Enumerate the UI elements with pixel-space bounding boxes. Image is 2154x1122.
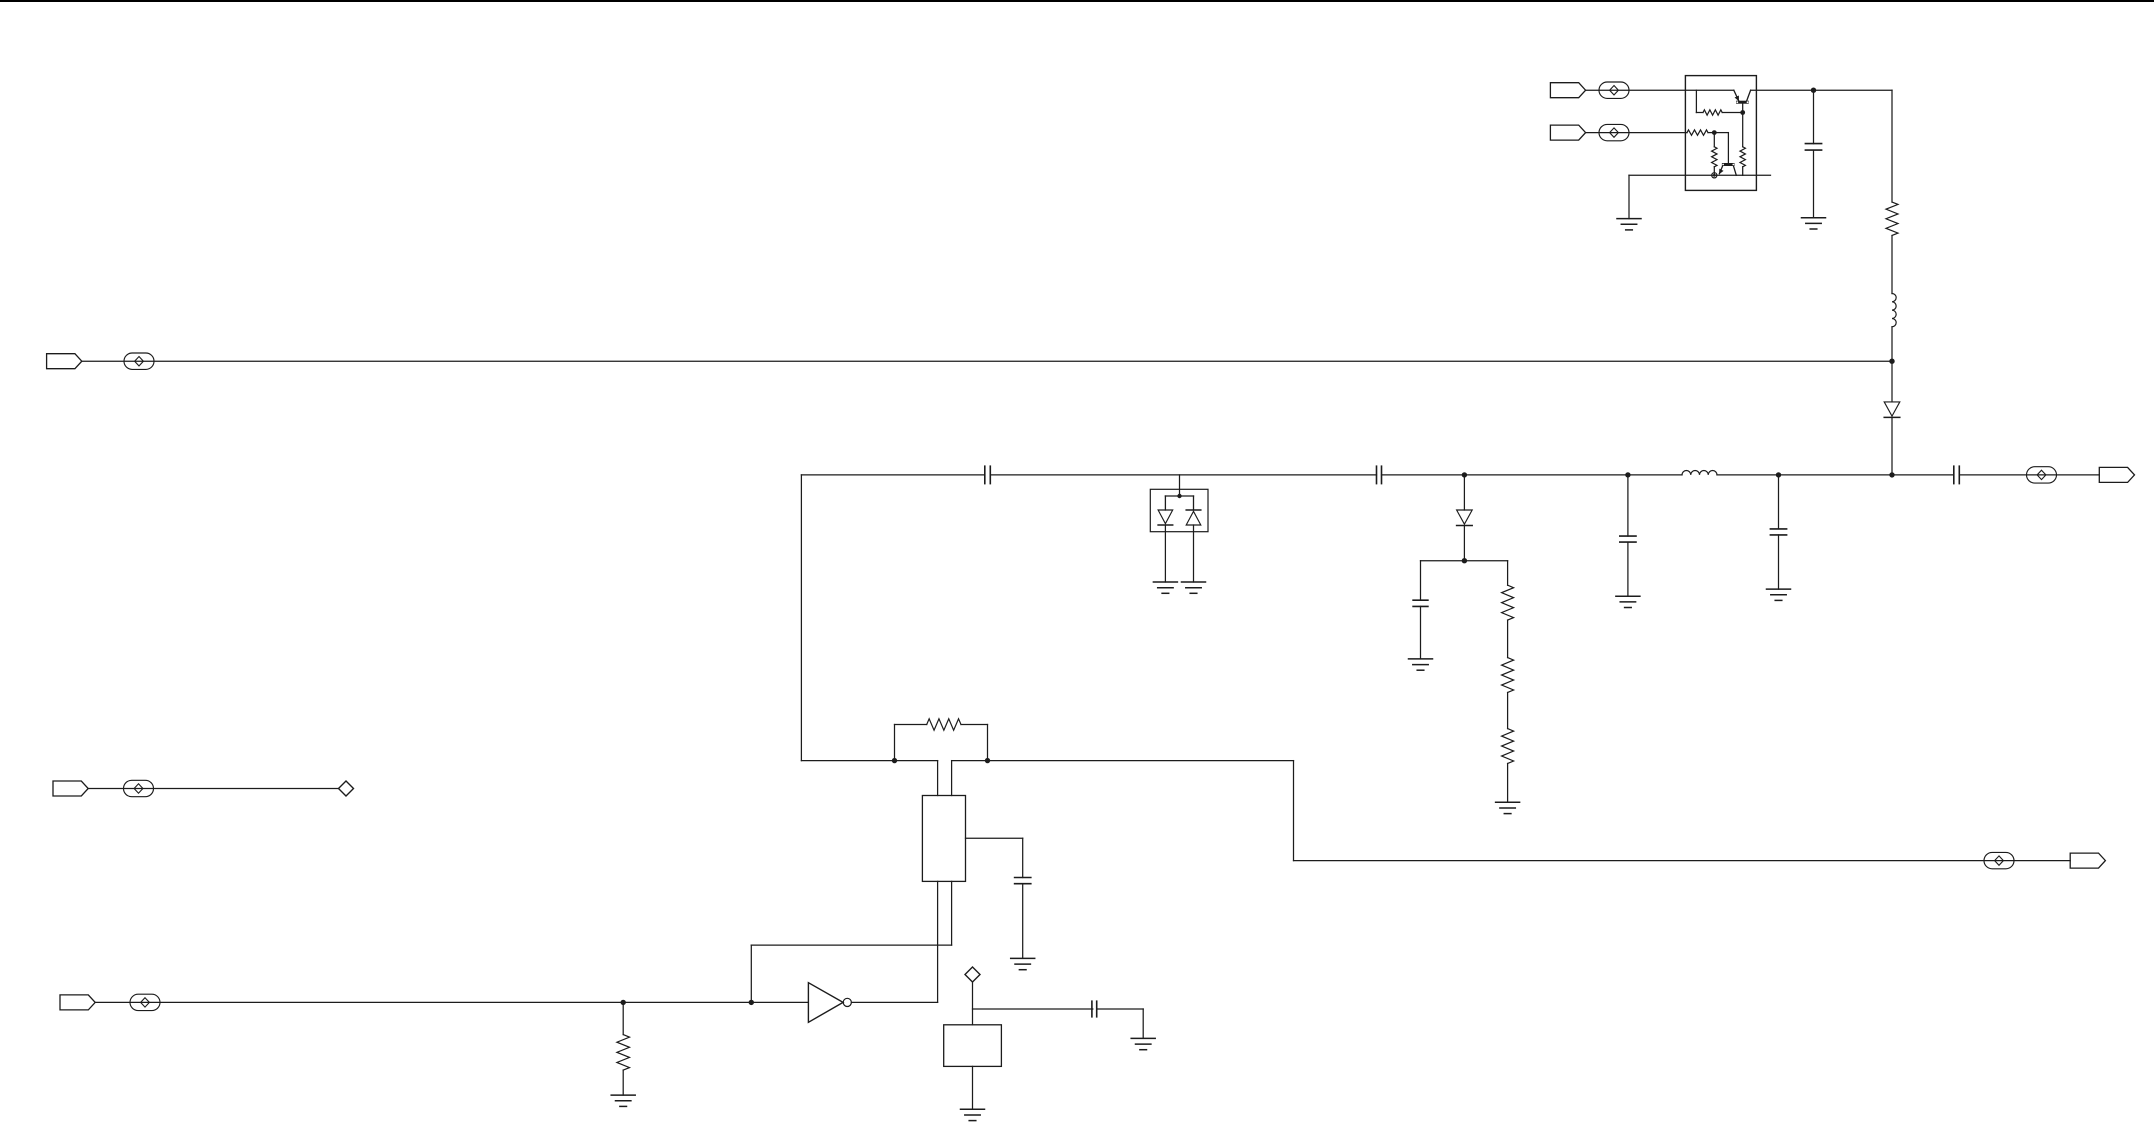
crystal X1 body — [922, 796, 965, 882]
wire node to right corner — [1814, 90, 1893, 202]
node dot at capacitor C1 tap — [1811, 88, 1816, 93]
resistor R1 (series, vertical) — [1886, 202, 1898, 236]
wire loop top right — [961, 724, 988, 726]
node dot at R_b2 output — [1712, 130, 1717, 135]
wire down to R6 — [622, 1002, 624, 1034]
wire junction down to diode D1 — [1891, 361, 1893, 402]
ground under R6 — [611, 1095, 635, 1106]
junction dot long wire / V-chain — [1889, 359, 1894, 364]
transistor Q1 base bar — [1736, 101, 1749, 104]
port P4 (RF output, right) — [2099, 467, 2134, 482]
junction dot at C6 branch — [1776, 472, 1781, 477]
wire L1 to long-net junction — [1891, 327, 1893, 361]
junction dot at R6 tap — [621, 1000, 626, 1005]
wire P6 to inverter input — [95, 1001, 808, 1003]
wire C1 to ground — [1813, 150, 1815, 218]
diode D1 (series, pointing down) — [1884, 402, 1900, 418]
resistor R4 — [1502, 729, 1514, 764]
resistor R2 — [1502, 585, 1514, 620]
junction dot RC node — [1462, 558, 1467, 563]
wire U2 internal tee — [1165, 496, 1193, 510]
wire bus corner down to oscillator node — [800, 475, 802, 761]
resistor R_e2 (Q2 base-emitter resistor) — [1712, 133, 1717, 176]
wire C8 to ground — [1022, 884, 1024, 959]
resistor R6 (pull-down) — [617, 1035, 630, 1071]
wire probe branch to C9 — [973, 1008, 1093, 1010]
wire crystal pin 2 — [951, 761, 953, 796]
wire R4 to ground — [1507, 764, 1509, 803]
ground under C1 — [1802, 218, 1826, 229]
wire oscillator node right segment — [952, 760, 1294, 762]
diode D2 (shunt, pointing down) — [1457, 510, 1473, 526]
wire R2 to R3 — [1507, 620, 1509, 658]
net indicator oval on osc output — [1984, 852, 2014, 868]
wire feedback loop right stub — [987, 725, 989, 761]
wire crystal pin 1 — [937, 761, 939, 796]
wire inverter output to crystal — [851, 1001, 937, 1003]
oscillator probe diamond — [965, 967, 980, 982]
wire Q1 collector to node — [1751, 89, 1814, 91]
bottom rail wire inside box — [1629, 174, 1771, 176]
wire bus down into ESD diode pack — [1179, 475, 1181, 496]
capacitor C9 (series) — [1092, 1001, 1097, 1017]
open net terminator diamond — [339, 781, 354, 796]
port P6 (input, bottom left) — [60, 995, 95, 1010]
wire Q1 base down — [1742, 104, 1744, 147]
wire RC node tee — [1421, 560, 1508, 562]
ground under C8 — [1011, 958, 1035, 969]
wire C6 to ground — [1778, 535, 1780, 589]
capacitor C1 — [1805, 144, 1821, 151]
junction dot right of crystal — [985, 758, 990, 763]
wire D1 to RF bus — [1891, 418, 1893, 475]
wire D2 to RC node — [1463, 526, 1465, 561]
junction dot at C5 branch — [1625, 472, 1630, 477]
capacitor C6 (shunt) — [1770, 529, 1786, 535]
inductor L2 (series) — [1682, 471, 1717, 475]
wire feedback loop left stub — [894, 725, 896, 761]
wire C5 to ground — [1627, 542, 1629, 596]
junction dot at inverter input / feedback — [749, 1000, 754, 1005]
port P5 (mid left) — [53, 781, 88, 796]
transistor Q1 collector — [1747, 90, 1751, 100]
wire RC node down to R2 — [1507, 561, 1509, 586]
ground under probe — [961, 1109, 985, 1120]
net indicator oval on P3 — [124, 353, 154, 369]
wire C4 to ground — [1420, 606, 1422, 659]
wire riser from input1 to base resistor R_b1 — [1695, 90, 1697, 112]
wire C9 to ground corner — [1097, 1009, 1144, 1038]
junction dot bus / D1 chain — [1889, 472, 1894, 477]
transistor Q1 emitter (arrow into bar, PNP) — [1734, 90, 1739, 100]
wire bus segment to diode node — [1779, 474, 1893, 476]
wire D4 to ground — [1193, 525, 1195, 582]
wire down to C4 — [1420, 561, 1422, 601]
resistor R_b1 (base resistor of Q1) — [1696, 110, 1742, 115]
wire bus segment to C5 node — [1464, 474, 1628, 476]
long horizontal net wire — [82, 360, 1892, 362]
wire R_e1 to bottom rail — [1742, 167, 1744, 176]
port P2 (input, top-right row 2) — [1550, 125, 1585, 140]
wire P5 to open net diamond — [88, 788, 338, 790]
wire bus down to diode D2 — [1463, 475, 1465, 510]
wire oscillator output to port — [1294, 860, 2071, 862]
net indicator oval on RF output — [2027, 467, 2057, 483]
port P1 (input, top-right row 1) — [1550, 83, 1585, 98]
wire bus down to C5 — [1627, 475, 1629, 536]
capacitor C3 (series DC block) — [1377, 466, 1382, 483]
wire down to C1 — [1813, 90, 1815, 143]
wire P1 to transistor box — [1586, 89, 1734, 91]
capacitor C4 — [1413, 600, 1428, 606]
inverter U3 triangle — [808, 983, 843, 1023]
wire crystal case pin to C8 — [966, 838, 1023, 877]
wire crystal pin 4 down — [951, 881, 953, 945]
junction dot left of crystal — [892, 758, 897, 763]
wire feedback horizontal — [751, 944, 951, 946]
top title bar — [0, 0, 2154, 2]
port P7 (osc output, right) — [2070, 853, 2105, 868]
wire probe box to ground — [972, 1066, 974, 1109]
resistor R3 — [1502, 658, 1514, 693]
wire bus segment L2 to C6 node — [1717, 474, 1779, 476]
wire P2 into box to base resistor — [1586, 132, 1687, 134]
wire bus left segment — [801, 474, 984, 476]
wire bus segment C3 to D2 node — [1382, 474, 1465, 476]
wire bus down to C6 — [1778, 475, 1780, 529]
resistor R_e1 (Q1 pull resistor) — [1740, 147, 1745, 167]
capacitor C8 — [1015, 878, 1031, 884]
net indicator oval on P2 — [1599, 124, 1629, 140]
ground under D4 — [1182, 582, 1206, 593]
wire R1 to L1 — [1891, 236, 1893, 294]
capacitor C7 (series DC block) — [1954, 466, 1960, 483]
ground under C5 — [1616, 596, 1640, 607]
wire oscillator node left segment — [801, 760, 937, 762]
diode D4 (right, cathode up) — [1186, 510, 1201, 525]
wire bus segment to C7 — [1892, 474, 1954, 476]
diode D3 (left, anode up) — [1158, 510, 1173, 525]
ground under R4 — [1496, 802, 1520, 813]
ground right of C9 — [1131, 1038, 1155, 1049]
transistor Q2 base bar — [1722, 163, 1735, 166]
junction dot at D2 branch — [1462, 472, 1467, 477]
dual digital transistor U1 package box — [1685, 76, 1756, 191]
net indicator oval on P6 — [130, 994, 160, 1010]
inverter U3 output bubble — [843, 998, 851, 1006]
port P3 (input, far left) — [47, 354, 82, 369]
net indicator oval on P5 — [124, 780, 154, 796]
capacitor C5 (shunt) — [1620, 536, 1636, 542]
wire C7 to output port — [1959, 474, 2099, 476]
probe body box — [944, 1025, 1002, 1067]
wire feedback down to inverter input — [750, 945, 752, 1002]
wire probe stem — [972, 982, 974, 1025]
capacitor C2 (series DC block) — [985, 466, 991, 483]
ground under C4 — [1409, 659, 1433, 670]
wire ground stub — [1628, 175, 1630, 218]
pin circle at Q2 emitter node — [1712, 173, 1717, 178]
wire oscillator output corner — [1293, 761, 1295, 861]
ESD dual-diode package box U2 — [1150, 489, 1208, 531]
node dot at Q1 base/resistor junction — [1740, 110, 1745, 115]
inductor L1 (vertical choke) — [1892, 294, 1896, 327]
wire loop top left — [895, 724, 927, 726]
net indicator oval on P1 — [1599, 82, 1629, 98]
wire D3 to ground — [1164, 525, 1166, 582]
transistor Q2 emitter (arrow out, NPN) — [1719, 166, 1722, 174]
resistor R5 (crystal parallel) — [927, 719, 961, 730]
ground under U1 — [1617, 219, 1641, 230]
ground under C6 — [1767, 589, 1791, 600]
wire bus segment to L2 — [1628, 474, 1682, 476]
wire R6 to ground — [622, 1070, 624, 1095]
wire bus segment C2 to ESD branch — [990, 474, 1376, 476]
wire crystal pin 3 down to inverter output — [937, 881, 939, 1002]
resistor R_b2 (base resistor of Q2) — [1687, 130, 1714, 135]
node dot inside U2 — [1177, 494, 1181, 498]
transistor Q2 collector — [1734, 166, 1737, 175]
wire junction to Q2 base — [1714, 133, 1728, 164]
ground under D3 — [1153, 582, 1177, 593]
wire R3 to R4 — [1507, 693, 1509, 729]
